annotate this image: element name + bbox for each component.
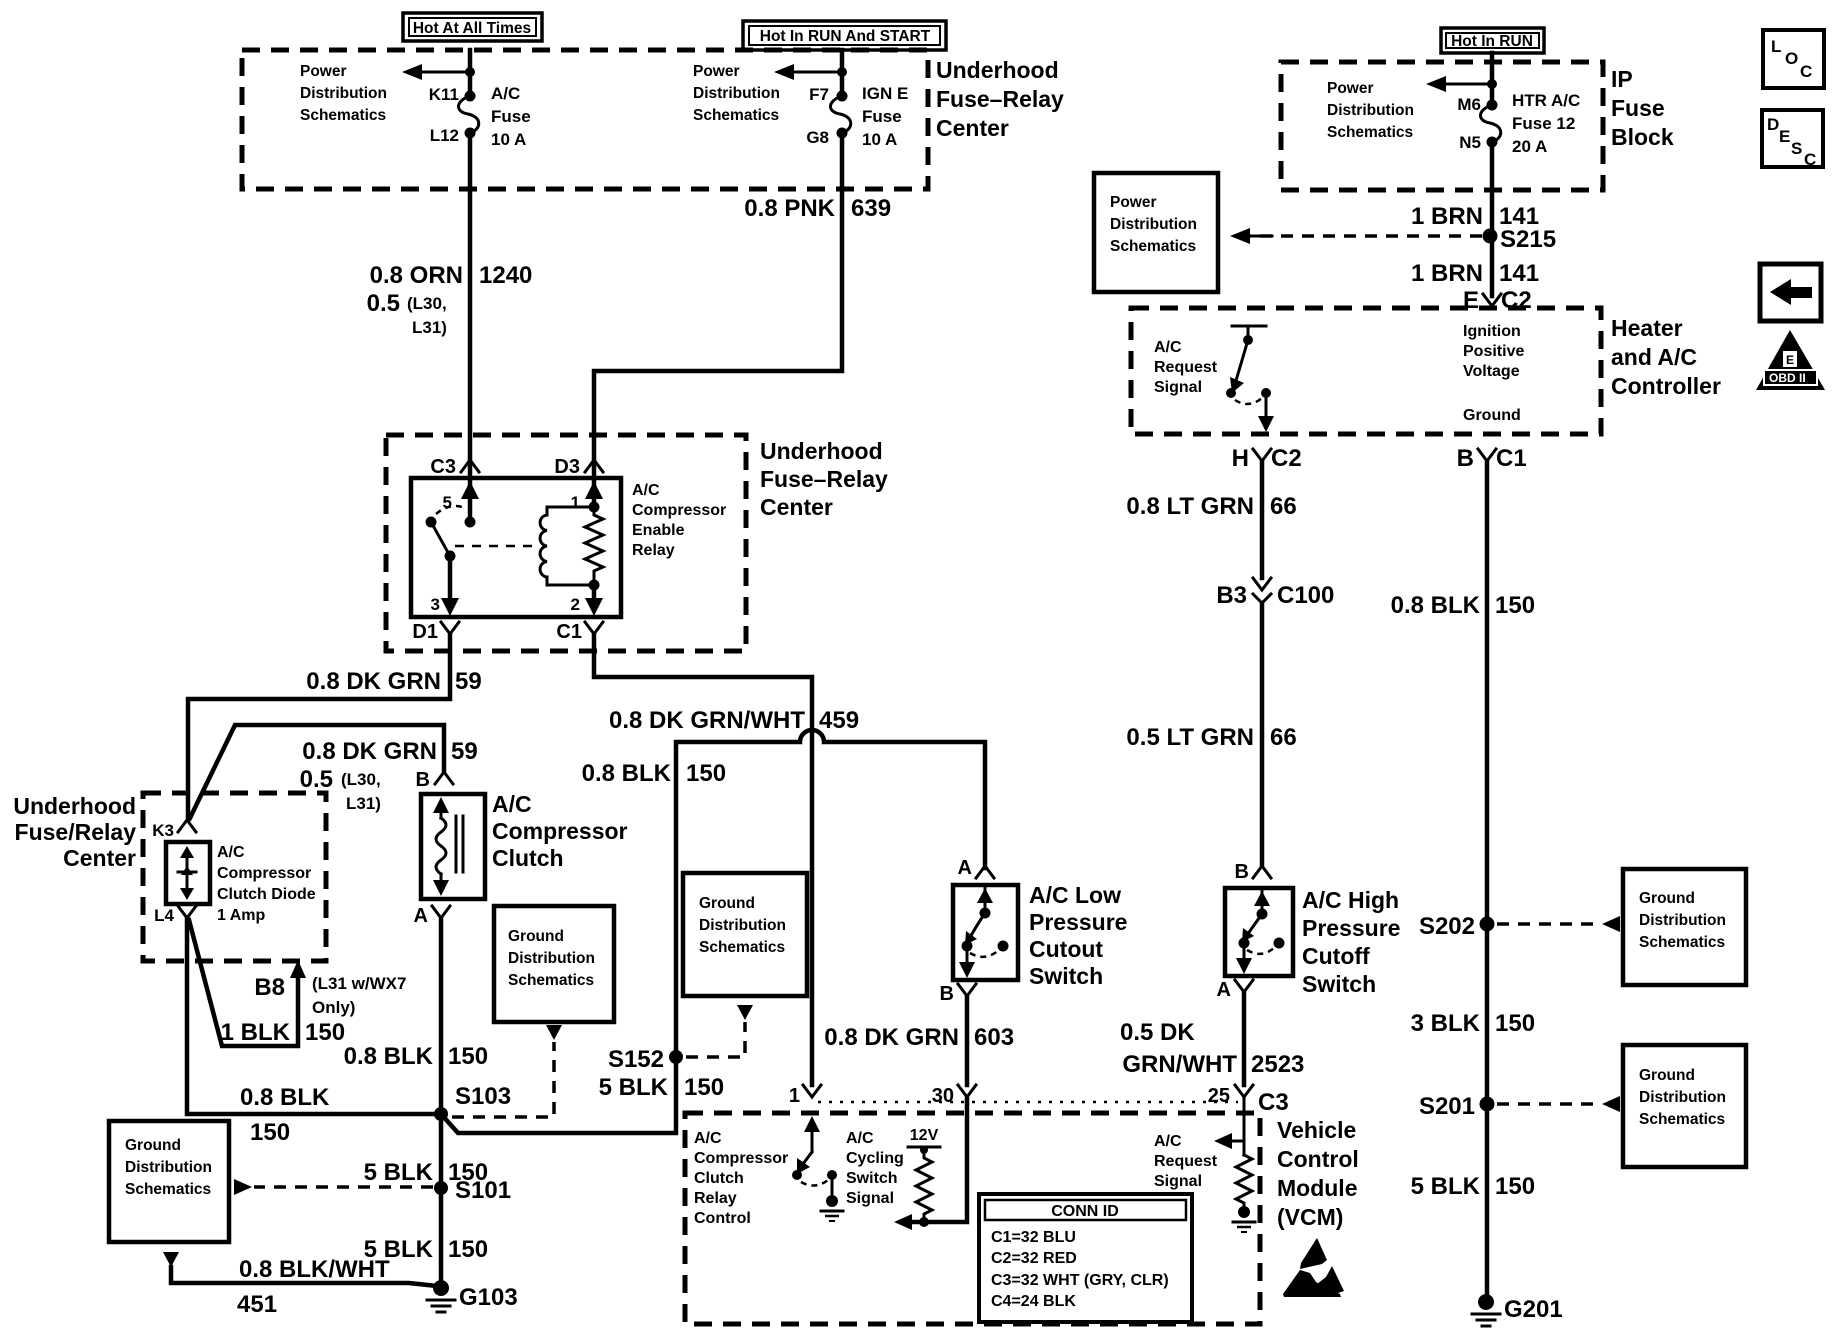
svg-text:Distribution: Distribution bbox=[1327, 102, 1414, 119]
svg-text:141: 141 bbox=[1499, 260, 1539, 287]
wire 0.8 BLK 150 from clutch A to S103 bbox=[439, 918, 444, 1114]
svg-text:10 A: 10 A bbox=[862, 130, 897, 149]
svg-text:5: 5 bbox=[443, 493, 452, 512]
svg-text:O: O bbox=[1785, 49, 1798, 68]
pin C1 of relay box bbox=[585, 622, 603, 640]
svg-text:K3: K3 bbox=[152, 821, 174, 840]
svg-text:Compressor: Compressor bbox=[492, 818, 628, 844]
wire relay coil actuation dashed link bbox=[455, 545, 540, 548]
pin 1 of relay bbox=[592, 462, 597, 507]
svg-text:0.5 DK: 0.5 DK bbox=[1120, 1019, 1195, 1046]
svg-text:451: 451 bbox=[237, 1291, 277, 1318]
pin 5 of relay bbox=[468, 462, 473, 517]
svg-text:A/C High: A/C High bbox=[1302, 887, 1399, 913]
svg-text:Cycling: Cycling bbox=[846, 1150, 904, 1167]
wire 0.8 DK GRN 59 branch to compressor clutch B bbox=[190, 725, 444, 818]
svg-text:B: B bbox=[940, 983, 954, 1005]
svg-text:Clutch: Clutch bbox=[694, 1170, 744, 1187]
wire 0.8 DK GRN/WHT 459 from relay C1 to VCM pin 1 bbox=[594, 636, 812, 1085]
pin 1 of VCM bbox=[803, 1085, 821, 1097]
svg-text:B8: B8 bbox=[254, 974, 285, 1001]
wire dashed reference from S152 to Ground Distribution Schematics bbox=[686, 1022, 745, 1057]
svg-text:Positive: Positive bbox=[1463, 343, 1524, 360]
ground G201 bbox=[1472, 1294, 1563, 1326]
svg-text:N5: N5 bbox=[1459, 133, 1481, 152]
svg-text:IP: IP bbox=[1611, 66, 1633, 92]
icon DESC reference box bbox=[1762, 110, 1823, 169]
svg-text:(VCM): (VCM) bbox=[1277, 1204, 1343, 1230]
connector B3 C100 in-line bbox=[1216, 578, 1334, 610]
svg-text:B: B bbox=[416, 769, 430, 791]
svg-text:150: 150 bbox=[686, 760, 726, 787]
svg-text:(L31 w/WX7: (L31 w/WX7 bbox=[312, 974, 406, 993]
svg-text:1 BRN: 1 BRN bbox=[1411, 203, 1483, 230]
box Underhood Fuse/Relay Center (diode dashed box) bbox=[143, 793, 326, 961]
pin L4 of diode bbox=[178, 906, 196, 918]
node Hot In RUN And START label bbox=[743, 21, 946, 50]
wire dashed reference from S101 to Ground Distribution Schematics bbox=[254, 1185, 433, 1189]
wire 0.5 DK GRN/WHT 2523 from switch A to VCM pin 25 bbox=[1242, 992, 1247, 1085]
svg-text:C3: C3 bbox=[430, 456, 456, 478]
wire dashed reference from S201 to Ground Distribution Schematics bbox=[1497, 1102, 1601, 1106]
svg-text:Fuse: Fuse bbox=[862, 107, 902, 126]
svg-text:Fuse: Fuse bbox=[1611, 95, 1665, 121]
svg-text:2523: 2523 bbox=[1251, 1051, 1304, 1078]
wire 0.8 PNK 639 to relay pin D3 bbox=[594, 133, 842, 462]
wire arrow to Power Distribution Schematics bbox=[414, 71, 470, 74]
svg-text:0.8 BLK: 0.8 BLK bbox=[1391, 592, 1481, 619]
svg-text:Hot In RUN And START: Hot In RUN And START bbox=[760, 28, 931, 45]
box IP Fuse Block (dashed) bbox=[1281, 62, 1603, 190]
svg-text:Signal: Signal bbox=[846, 1190, 894, 1207]
svg-text:B: B bbox=[1457, 445, 1474, 472]
wire dashed reference from S215 to Power Distribution Schematics bbox=[1248, 234, 1482, 238]
svg-text:C3=32 WHT (GRY, CLR): C3=32 WHT (GRY, CLR) bbox=[991, 1272, 1169, 1289]
switch A/C Low Pressure Cutout Switch bbox=[953, 885, 1018, 980]
svg-text:25: 25 bbox=[1208, 1085, 1230, 1107]
svg-text:S152: S152 bbox=[608, 1046, 664, 1073]
box Ground Distribution Schematics (bottom left) bbox=[109, 1121, 229, 1242]
svg-text:C1=32 BLU: C1=32 BLU bbox=[991, 1229, 1076, 1246]
svg-text:Schematics: Schematics bbox=[300, 107, 386, 124]
fuse HTR A/C Fuse 12 20A (M6/N5) bbox=[1457, 91, 1580, 156]
svg-text:459: 459 bbox=[819, 707, 859, 734]
wire cycling switch signal from pin 30 bbox=[904, 1097, 967, 1222]
wire arrow to Power Distribution Schematics bbox=[1438, 83, 1492, 86]
svg-text:Compressor: Compressor bbox=[632, 502, 726, 519]
svg-text:A/C: A/C bbox=[1154, 339, 1182, 356]
svg-text:S101: S101 bbox=[455, 1177, 511, 1204]
svg-text:Power: Power bbox=[693, 63, 740, 80]
svg-text:Center: Center bbox=[936, 115, 1009, 141]
wire from Hot At All Times to A/C fuse bbox=[468, 50, 473, 94]
wire 0.8 DK GRN 59 from relay D1 to diode K3 bbox=[188, 636, 450, 820]
svg-text:Distribution: Distribution bbox=[125, 1159, 212, 1176]
svg-text:Distribution: Distribution bbox=[508, 950, 595, 967]
svg-text:Voltage: Voltage bbox=[1463, 363, 1520, 380]
pin D3 of relay box bbox=[585, 460, 603, 472]
svg-text:30: 30 bbox=[932, 1085, 954, 1107]
pin A of A/C High Pressure Cutoff Switch bbox=[1235, 980, 1253, 997]
svg-text:A/C: A/C bbox=[491, 84, 520, 103]
svg-text:639: 639 bbox=[851, 195, 891, 222]
component A/C Compressor Clutch bbox=[421, 794, 485, 899]
svg-text:Fuse–Relay: Fuse–Relay bbox=[760, 466, 888, 492]
switch A/C High Pressure Cutoff Switch bbox=[1225, 888, 1293, 976]
svg-text:0.8 DK GRN: 0.8 DK GRN bbox=[824, 1024, 959, 1051]
wire 0.8 BLK/WHT 451 from G103 to Ground Distribution Schematics bbox=[171, 1267, 437, 1286]
svg-text:Control: Control bbox=[1277, 1146, 1359, 1172]
svg-text:C2=32 RED: C2=32 RED bbox=[991, 1250, 1077, 1267]
svg-text:0.5 LT GRN: 0.5 LT GRN bbox=[1126, 724, 1254, 751]
wire 5 BLK 150 from S101 to G103 bbox=[439, 1188, 444, 1286]
svg-text:G8: G8 bbox=[806, 128, 829, 147]
svg-text:S201: S201 bbox=[1419, 1093, 1475, 1120]
svg-text:Pressure: Pressure bbox=[1029, 909, 1127, 935]
svg-text:Relay: Relay bbox=[632, 542, 675, 559]
svg-text:150: 150 bbox=[305, 1019, 345, 1046]
svg-text:Fuse–Relay: Fuse–Relay bbox=[936, 86, 1064, 112]
svg-text:66: 66 bbox=[1270, 724, 1297, 751]
svg-text:Relay: Relay bbox=[694, 1190, 737, 1207]
node relay switch pivot dots bbox=[465, 517, 476, 528]
svg-text:S202: S202 bbox=[1419, 913, 1475, 940]
fuse A/C Fuse 10A (K11/L12) bbox=[429, 84, 531, 149]
wire dotted connector line along VCM pins bbox=[818, 1101, 1238, 1104]
svg-text:Signal: Signal bbox=[1154, 1173, 1202, 1190]
svg-text:C2: C2 bbox=[1271, 445, 1302, 472]
svg-text:Clutch: Clutch bbox=[492, 845, 564, 871]
wire 1 BLK 150 from L4 to B8 (L31 w/WX7 only) bbox=[189, 920, 298, 1046]
svg-text:Underhood: Underhood bbox=[936, 57, 1059, 83]
svg-text:D3: D3 bbox=[554, 456, 580, 478]
svg-text:150: 150 bbox=[250, 1119, 290, 1146]
svg-text:Distribution: Distribution bbox=[693, 85, 780, 102]
node relay coil top junction bbox=[589, 502, 600, 513]
wire from S103 down to S101 bbox=[439, 1114, 444, 1188]
wire 1 BRN 141 from S215 to controller pin E bbox=[1490, 236, 1495, 296]
relay coil winding bbox=[547, 507, 594, 585]
svg-text:(L30,: (L30, bbox=[341, 770, 381, 789]
svg-text:Fuse/Relay: Fuse/Relay bbox=[15, 819, 137, 845]
svg-text:0.8 ORN: 0.8 ORN bbox=[370, 262, 463, 289]
svg-text:0.5: 0.5 bbox=[367, 290, 400, 317]
node junction dot at A/C fuse feed bbox=[465, 67, 475, 77]
pin C3 of relay box bbox=[461, 460, 479, 472]
pin H C2 of Heater and A/C Controller bbox=[1253, 449, 1271, 467]
svg-text:A/C: A/C bbox=[846, 1130, 874, 1147]
svg-text:D: D bbox=[1767, 115, 1779, 134]
svg-text:Signal: Signal bbox=[1154, 379, 1202, 396]
svg-text:1: 1 bbox=[571, 493, 580, 512]
svg-text:D1: D1 bbox=[412, 621, 438, 643]
pin 30 of VCM bbox=[958, 1085, 976, 1097]
svg-text:0.8 BLK/WHT: 0.8 BLK/WHT bbox=[239, 1256, 390, 1283]
svg-text:L31): L31) bbox=[346, 794, 381, 813]
svg-text:S103: S103 bbox=[455, 1083, 511, 1110]
svg-text:Control: Control bbox=[694, 1210, 751, 1227]
svg-text:Schematics: Schematics bbox=[508, 972, 594, 989]
wire dashed reference from S103 to Ground Distribution Schematics bbox=[452, 1042, 554, 1117]
svg-text:150: 150 bbox=[448, 1236, 488, 1263]
svg-text:Schematics: Schematics bbox=[1639, 1111, 1725, 1128]
svg-text:C: C bbox=[1800, 62, 1812, 81]
svg-text:59: 59 bbox=[455, 668, 482, 695]
svg-text:Switch: Switch bbox=[846, 1170, 898, 1187]
pin A of A/C Low Pressure Cutout Switch bbox=[976, 866, 994, 878]
wire 0.8 BLK 150 from low pressure switch A to S152 (hops over 459 wire) bbox=[676, 730, 985, 1057]
svg-text:0.8 BLK: 0.8 BLK bbox=[582, 760, 672, 787]
svg-text:Schematics: Schematics bbox=[693, 107, 779, 124]
node Hot At All Times label bbox=[403, 13, 542, 41]
svg-text:150: 150 bbox=[684, 1074, 724, 1101]
icon OBD II triangle bbox=[1756, 330, 1825, 390]
node splice S103 bbox=[434, 1107, 448, 1121]
svg-text:CONN ID: CONN ID bbox=[1051, 1203, 1119, 1220]
svg-text:A/C: A/C bbox=[217, 844, 245, 861]
svg-text:B: B bbox=[1235, 861, 1249, 883]
wire dashed reference from S202 to Ground Distribution Schematics bbox=[1497, 922, 1601, 926]
pin B of A/C High Pressure Cutoff Switch bbox=[1253, 866, 1271, 878]
node junction dot at IGN E fuse feed bbox=[837, 67, 847, 77]
svg-text:150: 150 bbox=[1495, 1010, 1535, 1037]
svg-text:Power: Power bbox=[300, 63, 347, 80]
svg-text:Ground: Ground bbox=[1639, 890, 1695, 907]
svg-text:150: 150 bbox=[448, 1043, 488, 1070]
svg-text:Block: Block bbox=[1611, 124, 1674, 150]
svg-text:Distribution: Distribution bbox=[699, 917, 786, 934]
wire from Hot In RUN And START to IGN E fuse bbox=[840, 50, 845, 94]
wire from Hot In RUN to HTR A/C fuse bbox=[1490, 53, 1495, 103]
svg-text:Fuse: Fuse bbox=[491, 107, 531, 126]
svg-text:H: H bbox=[1232, 445, 1249, 472]
pin B of A/C Low Pressure Cutout Switch bbox=[958, 984, 976, 1001]
box Power Distribution Schematics (solid) bbox=[1094, 173, 1218, 292]
svg-text:A/C: A/C bbox=[632, 482, 660, 499]
svg-text:Pressure: Pressure bbox=[1302, 915, 1400, 941]
svg-text:A: A bbox=[1217, 979, 1231, 1001]
box Ground Distribution Schematics (S201) bbox=[1623, 1045, 1746, 1167]
fuse IGN E Fuse 10A (F7/G8) bbox=[806, 84, 908, 149]
svg-text:A: A bbox=[414, 905, 428, 927]
box Ground Distribution Schematics (above S103) bbox=[494, 906, 614, 1022]
svg-text:Request: Request bbox=[1154, 359, 1218, 376]
svg-text:Ground: Ground bbox=[699, 895, 755, 912]
svg-text:Module: Module bbox=[1277, 1175, 1358, 1201]
svg-text:5 BLK: 5 BLK bbox=[1411, 1173, 1481, 1200]
svg-text:66: 66 bbox=[1270, 493, 1297, 520]
svg-text:Underhood: Underhood bbox=[760, 438, 883, 464]
svg-text:Clutch Diode: Clutch Diode bbox=[217, 886, 316, 903]
svg-text:2: 2 bbox=[571, 595, 580, 614]
svg-text:1 BLK: 1 BLK bbox=[221, 1019, 291, 1046]
wire arrow to Power Distribution Schematics bbox=[786, 71, 842, 74]
svg-text:Hot In RUN: Hot In RUN bbox=[1451, 33, 1533, 50]
node splice S201 bbox=[1480, 1097, 1495, 1112]
wire 0.8 LT GRN 66 from controller H to C100 bbox=[1260, 461, 1265, 578]
svg-text:0.5: 0.5 bbox=[300, 766, 333, 793]
svg-text:Ground: Ground bbox=[125, 1137, 181, 1154]
svg-text:Controller: Controller bbox=[1611, 373, 1721, 399]
svg-text:5 BLK: 5 BLK bbox=[364, 1159, 434, 1186]
wire 0.5 LT GRN 66 from C100 to high pressure switch B bbox=[1260, 603, 1265, 866]
svg-text:Schematics: Schematics bbox=[699, 939, 785, 956]
svg-text:Distribution: Distribution bbox=[1639, 1089, 1726, 1106]
wire 3 BLK 150 from S202 to S201 bbox=[1485, 924, 1490, 1104]
svg-text:0.8 PNK: 0.8 PNK bbox=[744, 195, 835, 222]
svg-text:603: 603 bbox=[974, 1024, 1014, 1051]
svg-text:3: 3 bbox=[431, 595, 440, 614]
ground G103 bbox=[427, 1280, 518, 1312]
pin D1 of relay box bbox=[441, 622, 459, 640]
svg-text:Distribution: Distribution bbox=[1639, 912, 1726, 929]
svg-text:Vehicle: Vehicle bbox=[1277, 1117, 1356, 1143]
node junction dot at HTR A/C fuse feed bbox=[1487, 79, 1497, 89]
pin B C1 of Heater and A/C Controller bbox=[1478, 449, 1496, 467]
svg-text:K11: K11 bbox=[429, 85, 459, 104]
pin 3 of relay bbox=[448, 556, 453, 600]
svg-text:1240: 1240 bbox=[479, 262, 532, 289]
svg-text:0.8 DK GRN: 0.8 DK GRN bbox=[306, 668, 441, 695]
resistor inside relay bbox=[585, 507, 603, 585]
wire 5 BLK 150 from S201 to G201 bbox=[1485, 1104, 1490, 1300]
pin E C2 of Heater and A/C Controller bbox=[1483, 294, 1501, 306]
svg-text:Hot At All Times: Hot At All Times bbox=[413, 20, 531, 37]
box Ground Distribution Schematics (middle) bbox=[683, 873, 807, 996]
svg-text:A/C: A/C bbox=[694, 1130, 722, 1147]
wire 0.8 DK GRN 603 from switch B to VCM pin 30 bbox=[965, 996, 970, 1085]
pin B of compressor clutch bbox=[435, 772, 453, 784]
wire relay switch blade (dashed arc + solid blade) bbox=[436, 506, 465, 514]
svg-text:Underhood: Underhood bbox=[13, 793, 136, 819]
svg-text:Only): Only) bbox=[312, 998, 355, 1017]
wire 0.8 BLK 150 from controller B to S202 bbox=[1485, 461, 1490, 924]
svg-text:HTR A/C: HTR A/C bbox=[1512, 91, 1580, 110]
pin A of compressor clutch bbox=[432, 906, 450, 924]
switch A/C compressor clutch relay control driver bbox=[792, 1116, 843, 1221]
svg-text:Compressor: Compressor bbox=[217, 865, 311, 882]
svg-text:0.8 LT GRN: 0.8 LT GRN bbox=[1126, 493, 1254, 520]
svg-text:C: C bbox=[1804, 150, 1816, 169]
node splice S152 bbox=[669, 1050, 683, 1064]
pin 2 of relay bbox=[592, 585, 597, 600]
svg-text:C100: C100 bbox=[1277, 582, 1334, 609]
svg-text:Ground: Ground bbox=[1463, 407, 1521, 424]
table CONN ID bbox=[979, 1194, 1192, 1322]
svg-text:(L30,: (L30, bbox=[407, 294, 447, 313]
svg-text:Ground: Ground bbox=[508, 928, 564, 945]
svg-text:Distribution: Distribution bbox=[1110, 216, 1197, 233]
pin K3 of diode bbox=[178, 820, 196, 832]
svg-text:Schematics: Schematics bbox=[1110, 238, 1196, 255]
switch A/C request inside controller bbox=[1226, 326, 1274, 432]
pin 25 C3 of VCM bbox=[1235, 1085, 1253, 1097]
box Underhood Fuse-Relay Center (relay dashed box) bbox=[386, 435, 746, 651]
node splice S101 bbox=[434, 1181, 448, 1195]
svg-text:Cutout: Cutout bbox=[1029, 936, 1103, 962]
svg-text:A: A bbox=[958, 857, 972, 879]
svg-text:B3: B3 bbox=[1216, 582, 1247, 609]
node splice S202 bbox=[1480, 917, 1495, 932]
svg-text:A/C: A/C bbox=[492, 791, 532, 817]
svg-text:0.8 BLK: 0.8 BLK bbox=[344, 1043, 434, 1070]
node relay coil bottom junction bbox=[589, 580, 600, 591]
svg-text:1 BRN: 1 BRN bbox=[1411, 260, 1483, 287]
box Ground Distribution Schematics (S202) bbox=[1623, 869, 1746, 985]
svg-text:Schematics: Schematics bbox=[125, 1181, 211, 1198]
svg-text:10 A: 10 A bbox=[491, 130, 526, 149]
symbol ESD sensitive device bbox=[1283, 1238, 1344, 1297]
svg-text:S: S bbox=[1791, 139, 1802, 158]
box Vehicle Control Module VCM (dashed) bbox=[685, 1113, 1260, 1324]
wire 5 BLK 150 from S103 to S152 riser bbox=[441, 1057, 676, 1133]
svg-text:Request: Request bbox=[1154, 1153, 1218, 1170]
svg-text:C3: C3 bbox=[1258, 1089, 1289, 1116]
svg-text:and A/C: and A/C bbox=[1611, 344, 1697, 370]
svg-text:S215: S215 bbox=[1500, 226, 1556, 253]
svg-text:Schematics: Schematics bbox=[1639, 934, 1725, 951]
svg-text:C1: C1 bbox=[556, 621, 582, 643]
svg-text:C4=24 BLK: C4=24 BLK bbox=[991, 1293, 1076, 1310]
svg-text:150: 150 bbox=[1495, 1173, 1535, 1200]
icon LOC reference box bbox=[1763, 30, 1824, 88]
svg-text:E: E bbox=[1779, 127, 1790, 146]
svg-text:L12: L12 bbox=[430, 126, 459, 145]
svg-text:5 BLK: 5 BLK bbox=[599, 1074, 669, 1101]
svg-text:0.8 DK GRN: 0.8 DK GRN bbox=[302, 738, 437, 765]
diode A/C Compressor Clutch Diode 1 Amp bbox=[166, 842, 210, 904]
svg-text:A/C Low: A/C Low bbox=[1029, 882, 1121, 908]
svg-text:Compressor: Compressor bbox=[694, 1150, 788, 1167]
svg-text:Power: Power bbox=[1327, 80, 1374, 97]
icon back arrow box bbox=[1760, 264, 1821, 321]
svg-text:150: 150 bbox=[1495, 592, 1535, 619]
svg-text:Ignition: Ignition bbox=[1463, 323, 1521, 340]
svg-text:M6: M6 bbox=[1457, 95, 1481, 114]
svg-text:C1: C1 bbox=[1496, 445, 1527, 472]
svg-text:Distribution: Distribution bbox=[300, 85, 387, 102]
wire 1 BRN 141 from fuse to S215 bbox=[1490, 142, 1495, 236]
svg-text:Schematics: Schematics bbox=[1327, 124, 1413, 141]
svg-text:Enable: Enable bbox=[632, 522, 685, 539]
svg-text:59: 59 bbox=[451, 738, 478, 765]
node Hot In RUN label bbox=[1441, 28, 1544, 53]
wire 0.8 ORN 1240 down to relay pin C3 bbox=[468, 133, 473, 462]
svg-text:E: E bbox=[1786, 353, 1794, 367]
svg-text:Fuse 12: Fuse 12 bbox=[1512, 114, 1575, 133]
svg-text:3 BLK: 3 BLK bbox=[1411, 1010, 1481, 1037]
svg-text:L4: L4 bbox=[154, 906, 174, 925]
node splice S215 bbox=[1483, 229, 1498, 244]
svg-text:Ground: Ground bbox=[1639, 1067, 1695, 1084]
svg-text:G103: G103 bbox=[459, 1284, 518, 1311]
svg-text:Power: Power bbox=[1110, 194, 1157, 211]
svg-text:G201: G201 bbox=[1504, 1296, 1563, 1323]
svg-text:OBD II: OBD II bbox=[1769, 371, 1806, 385]
svg-text:L31): L31) bbox=[412, 318, 447, 337]
svg-text:F7: F7 bbox=[809, 85, 829, 104]
svg-text:IGN E: IGN E bbox=[862, 84, 908, 103]
svg-text:12V: 12V bbox=[910, 1127, 939, 1144]
resistor 12V pull-up for cycling switch signal bbox=[908, 1127, 940, 1227]
svg-text:1 Amp: 1 Amp bbox=[217, 907, 266, 924]
svg-text:0.8 BLK: 0.8 BLK bbox=[240, 1084, 330, 1111]
svg-text:Center: Center bbox=[63, 845, 136, 871]
resistor A/C request signal pull-down bbox=[1214, 1097, 1255, 1232]
box Underhood Fuse-Relay Center (top dashed) bbox=[242, 50, 928, 189]
svg-text:GRN/WHT: GRN/WHT bbox=[1122, 1051, 1237, 1078]
svg-text:Center: Center bbox=[760, 494, 833, 520]
